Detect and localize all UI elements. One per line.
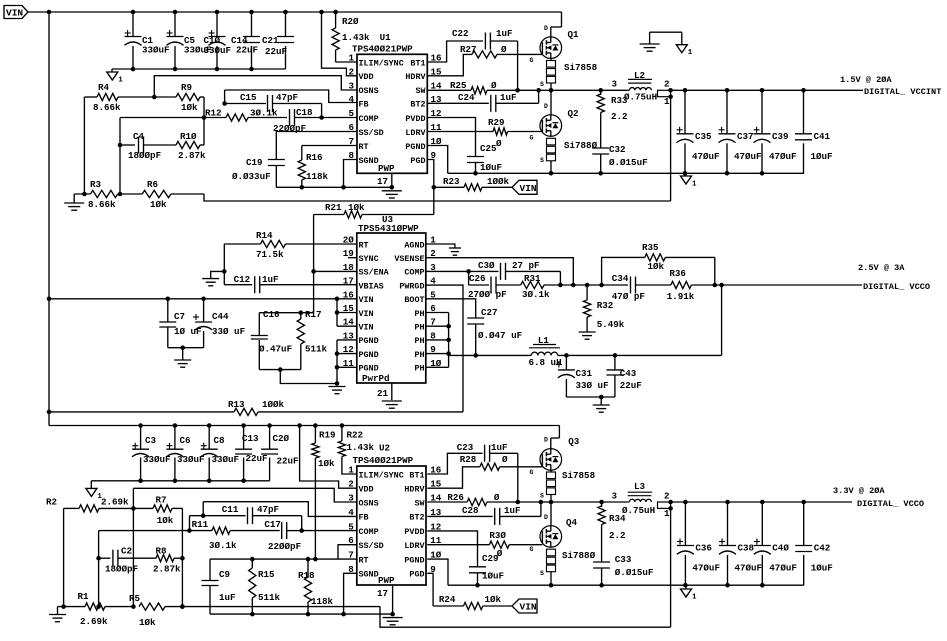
svg-text:1uF: 1uF bbox=[496, 28, 513, 39]
resistor R32 bbox=[584, 285, 625, 332]
capacitor C37 bbox=[719, 90, 762, 174]
svg-text:D: D bbox=[544, 103, 548, 110]
transistor Q1 Si7858 bbox=[530, 12, 598, 90]
wire U3 PGND bracket bbox=[335, 340, 357, 386]
resistor R10 bbox=[176, 131, 206, 161]
svg-text:R23: R23 bbox=[443, 176, 460, 187]
wire FB line U2 bbox=[203, 502, 357, 517]
svg-text:G: G bbox=[530, 546, 534, 553]
capacitor C39 bbox=[754, 90, 797, 174]
svg-text:5: 5 bbox=[348, 521, 354, 532]
svg-text:VSENSE: VSENSE bbox=[394, 254, 424, 264]
svg-text:PH: PH bbox=[414, 323, 424, 333]
capacitor C3 bbox=[132, 426, 170, 481]
svg-text:2: 2 bbox=[348, 479, 354, 490]
wire bottom cap ground rail bbox=[91, 479, 269, 484]
svg-text:C35: C35 bbox=[695, 131, 712, 142]
resistor R8 bbox=[153, 546, 182, 575]
svg-text:Ø.47uF: Ø.47uF bbox=[259, 344, 292, 355]
inductor L2 bbox=[612, 70, 670, 103]
svg-text:R26: R26 bbox=[447, 492, 464, 503]
svg-text:SW: SW bbox=[415, 86, 426, 96]
svg-text:47ØuF: 47ØuF bbox=[734, 151, 762, 162]
svg-text:DIGITAL_ VCCO: DIGITAL_ VCCO bbox=[857, 499, 924, 509]
ground tri1 bottom caps bbox=[86, 481, 103, 501]
svg-text:1.5V @ 2ØA: 1.5V @ 2ØA bbox=[840, 75, 892, 85]
resistor R7 bbox=[133, 495, 182, 527]
capacitor C19 bbox=[232, 132, 357, 188]
svg-text:C16: C16 bbox=[263, 309, 280, 320]
svg-text:R29: R29 bbox=[488, 117, 505, 128]
ground tri1 rail2 bbox=[681, 585, 698, 601]
svg-text:2.87k: 2.87k bbox=[178, 150, 206, 161]
svg-text:2.69k: 2.69k bbox=[101, 497, 129, 508]
wire VIN line to U3 bbox=[47, 297, 337, 302]
svg-text:1.43k: 1.43k bbox=[342, 32, 370, 43]
svg-text:5.49k: 5.49k bbox=[597, 319, 625, 330]
svg-text:47ØuF: 47ØuF bbox=[769, 151, 797, 162]
svg-text:PWRGD: PWRGD bbox=[399, 281, 424, 291]
svg-text:47Ø pF: 47Ø pF bbox=[612, 291, 645, 302]
svg-text:C27: C27 bbox=[481, 307, 498, 318]
svg-text:C33: C33 bbox=[615, 554, 632, 565]
wire divider mid vertical bbox=[131, 508, 136, 608]
svg-text:PH: PH bbox=[414, 364, 424, 374]
wire R6 feedback to L2 tap bbox=[204, 194, 671, 201]
ground C7 C44 bbox=[174, 360, 191, 367]
resistor R30 bbox=[427, 530, 542, 559]
wire PGD to R23 bbox=[427, 160, 436, 215]
wire VSENSE line bbox=[426, 258, 574, 285]
capacitor C8 bbox=[201, 426, 239, 481]
svg-text:DIGITAL_ VCCINT: DIGITAL_ VCCINT bbox=[864, 87, 941, 97]
svg-text:VIN: VIN bbox=[520, 183, 537, 194]
transistor Q4 Si7880 bbox=[530, 502, 596, 585]
svg-text:1Øk: 1Øk bbox=[150, 199, 167, 210]
svg-text:LDRV: LDRV bbox=[405, 128, 426, 138]
capacitor C11 bbox=[190, 504, 302, 531]
svg-text:R9: R9 bbox=[181, 82, 192, 93]
capacitor C23 bbox=[427, 442, 518, 502]
svg-text:TPS4ØØ21PWP: TPS4ØØ21PWP bbox=[353, 455, 414, 466]
svg-text:22uF: 22uF bbox=[265, 46, 287, 57]
svg-text:3Ø.1k: 3Ø.1k bbox=[522, 289, 550, 300]
wire Q3 source lead bbox=[550, 470, 552, 472]
svg-text:VIN: VIN bbox=[520, 602, 537, 613]
svg-text:C11: C11 bbox=[222, 504, 239, 515]
wire PGND to ground rail bbox=[427, 146, 447, 174]
svg-text:R24: R24 bbox=[439, 594, 456, 605]
svg-text:R22: R22 bbox=[347, 430, 364, 441]
wire L1 output node bbox=[558, 285, 722, 358]
svg-text:HDRV: HDRV bbox=[405, 72, 426, 82]
capacitor C33 bbox=[593, 554, 653, 585]
wire C16 R17 bottom rail bbox=[259, 367, 337, 383]
wire COMP line left segment bbox=[120, 115, 206, 194]
capacitor C26 bbox=[468, 271, 507, 300]
resistor R2 bbox=[46, 497, 133, 513]
svg-text:3Ø.1k: 3Ø.1k bbox=[250, 108, 278, 119]
svg-text:22ØØpF: 22ØØpF bbox=[273, 123, 306, 134]
svg-text:PH: PH bbox=[414, 336, 424, 346]
svg-text:C23: C23 bbox=[457, 442, 474, 453]
svg-text:R27: R27 bbox=[460, 44, 477, 55]
svg-text:3: 3 bbox=[612, 491, 618, 502]
svg-text:C29: C29 bbox=[482, 553, 499, 564]
svg-text:3: 3 bbox=[348, 493, 354, 504]
svg-text:33ØuF: 33ØuF bbox=[142, 45, 170, 56]
wire PGND to ground rail U2 bbox=[427, 559, 448, 585]
svg-text:1Øk: 1Øk bbox=[648, 261, 665, 272]
svg-text:C4: C4 bbox=[133, 131, 145, 142]
svg-text:RT: RT bbox=[359, 142, 369, 152]
svg-text:R28: R28 bbox=[460, 454, 477, 465]
svg-text:PWP: PWP bbox=[378, 575, 395, 586]
svg-text:1Øk: 1Øk bbox=[157, 515, 174, 526]
svg-text:SGND: SGND bbox=[359, 570, 379, 580]
capacitor C24 bbox=[427, 90, 538, 112]
capacitor C36 bbox=[677, 502, 720, 586]
svg-text:HDRV: HDRV bbox=[404, 485, 425, 495]
ground tri1 input caps bbox=[107, 69, 124, 85]
wire SYNC stub bbox=[348, 257, 357, 259]
svg-text:R12: R12 bbox=[205, 108, 222, 119]
ground U1 pad bbox=[382, 191, 402, 198]
svg-text:C38: C38 bbox=[738, 543, 755, 554]
svg-text:D: D bbox=[544, 514, 548, 521]
svg-text:R18: R18 bbox=[298, 570, 315, 581]
svg-text:R4: R4 bbox=[98, 82, 110, 93]
svg-text:R1: R1 bbox=[78, 591, 90, 602]
svg-text:BT2: BT2 bbox=[409, 513, 424, 523]
ground R1 left bbox=[49, 607, 66, 622]
resistor R19 bbox=[312, 426, 336, 560]
svg-text:47pF: 47pF bbox=[257, 504, 279, 515]
svg-text:8.66k: 8.66k bbox=[93, 102, 121, 113]
wire R9 to COMP vertical bbox=[203, 97, 205, 145]
capacitor C29 bbox=[427, 531, 504, 585]
svg-text:PwrPd: PwrPd bbox=[362, 373, 390, 384]
wire R5 feedback to L3 tap bbox=[380, 607, 671, 628]
svg-text:PWP: PWP bbox=[378, 163, 395, 174]
svg-text:33ØuF: 33ØuF bbox=[143, 454, 171, 465]
svg-text:Q4: Q4 bbox=[566, 517, 578, 528]
svg-text:18ØØpF: 18ØØpF bbox=[128, 150, 161, 161]
svg-text:R13: R13 bbox=[228, 399, 245, 410]
svg-text:1: 1 bbox=[692, 181, 697, 189]
wire U1 pad17 ground stub bbox=[390, 173, 395, 189]
svg-text:C32: C32 bbox=[609, 144, 626, 155]
svg-text:VDD: VDD bbox=[359, 72, 374, 82]
svg-text:Ø: Ø bbox=[496, 138, 502, 149]
svg-text:118k: 118k bbox=[311, 596, 334, 607]
svg-text:1uF: 1uF bbox=[219, 592, 236, 603]
svg-text:G: G bbox=[530, 469, 534, 476]
svg-text:C37: C37 bbox=[737, 131, 754, 142]
svg-text:22uF: 22uF bbox=[620, 380, 642, 391]
svg-text:17: 17 bbox=[377, 588, 388, 599]
svg-text:R8: R8 bbox=[156, 546, 168, 557]
inductor L1 bbox=[529, 335, 562, 368]
svg-text:COMP: COMP bbox=[359, 114, 379, 124]
ground R32 bbox=[579, 332, 596, 339]
svg-text:C7: C7 bbox=[174, 311, 185, 322]
transistor Q3 Si7858 bbox=[530, 426, 596, 503]
svg-text:4: 4 bbox=[348, 94, 354, 105]
ground tie symbol top bbox=[640, 32, 693, 57]
resistor R34 bbox=[598, 502, 626, 562]
svg-text:Ø: Ø bbox=[491, 80, 497, 91]
svg-text:C2Ø: C2Ø bbox=[273, 433, 290, 444]
svg-text:1: 1 bbox=[348, 53, 354, 64]
svg-text:1: 1 bbox=[348, 465, 354, 476]
resistor R16 bbox=[298, 146, 357, 188]
capacitor C1 bbox=[125, 12, 170, 69]
svg-text:118k: 118k bbox=[306, 171, 329, 182]
svg-text:C13: C13 bbox=[242, 433, 259, 444]
svg-text:R31: R31 bbox=[524, 273, 541, 284]
ground C12 branch bbox=[202, 271, 224, 285]
capacitor C28 bbox=[427, 502, 541, 525]
wire C16 R17 top rail bbox=[259, 310, 313, 315]
svg-text:Si788Ø: Si788Ø bbox=[562, 550, 596, 561]
resistor R31 bbox=[496, 273, 560, 300]
resistor R33 bbox=[597, 90, 604, 148]
svg-text:1.91k: 1.91k bbox=[667, 291, 695, 302]
capacitor C16 bbox=[251, 309, 292, 370]
svg-text:S: S bbox=[540, 570, 544, 577]
resistor R35 bbox=[602, 242, 715, 285]
svg-text:22uF: 22uF bbox=[277, 456, 299, 467]
resistor R15 bbox=[249, 557, 281, 614]
wire U2 pad17 ground stub bbox=[390, 585, 395, 616]
resistor R28 bbox=[427, 454, 542, 488]
capacitor C7 bbox=[159, 299, 201, 348]
resistor R24 bbox=[433, 594, 512, 610]
wire PH line to L1 bbox=[449, 354, 532, 356]
svg-text:22ØØpF: 22ØØpF bbox=[268, 541, 301, 552]
svg-text:511k: 511k bbox=[258, 592, 281, 603]
svg-text:47ØuF: 47ØuF bbox=[769, 563, 797, 574]
capacitor C32 bbox=[592, 144, 647, 173]
svg-text:VBIAS: VBIAS bbox=[359, 281, 384, 291]
ground U2 pad bbox=[383, 618, 403, 625]
svg-text:R14: R14 bbox=[256, 230, 273, 241]
capacitor C18 bbox=[273, 107, 322, 134]
ground U3 PGND bbox=[329, 387, 346, 394]
node C11 FB junction bbox=[201, 513, 206, 518]
svg-text:R6: R6 bbox=[147, 179, 158, 190]
svg-text:1Øk: 1Øk bbox=[485, 594, 502, 605]
svg-text:3: 3 bbox=[612, 79, 618, 90]
transistor Q2 Si7880 bbox=[530, 90, 598, 173]
svg-text:R2: R2 bbox=[46, 497, 57, 508]
wire PGD to R24 bbox=[427, 573, 433, 606]
svg-text:PVDD: PVDD bbox=[405, 114, 425, 124]
svg-text:PGND: PGND bbox=[359, 350, 379, 360]
svg-text:DIGITAL_ VCCO: DIGITAL_ VCCO bbox=[863, 282, 930, 292]
capacitor C43 bbox=[606, 355, 641, 397]
svg-text:S: S bbox=[540, 493, 544, 500]
svg-text:Ø.Ø15uF: Ø.Ø15uF bbox=[609, 157, 648, 168]
svg-text:BOOT: BOOT bbox=[404, 295, 424, 305]
wire C7 C44 ground rail bbox=[168, 345, 204, 360]
svg-text:S: S bbox=[540, 157, 544, 164]
capacitor C10 bbox=[204, 12, 232, 69]
svg-text:17: 17 bbox=[377, 176, 388, 187]
capacitor C30 bbox=[469, 260, 561, 285]
svg-text:1ØuF: 1ØuF bbox=[811, 151, 833, 162]
wire 3.3V output line bbox=[671, 500, 852, 505]
wire R2 left vertical bbox=[63, 508, 65, 606]
capacitor C40 bbox=[754, 502, 797, 586]
node COMP junction U2 bbox=[299, 528, 356, 533]
capacitor C34 bbox=[612, 273, 671, 302]
svg-text:6.8 uH: 6.8 uH bbox=[529, 357, 562, 368]
capacitor C13 bbox=[235, 426, 267, 481]
capacitor C12 bbox=[224, 274, 357, 293]
svg-text:1: 1 bbox=[118, 77, 123, 85]
svg-text:Ø.Ø47 uF: Ø.Ø47 uF bbox=[478, 330, 522, 341]
svg-text:C17: C17 bbox=[264, 519, 281, 530]
svg-text:2: 2 bbox=[664, 491, 670, 502]
resistor R36 bbox=[667, 268, 724, 302]
svg-text:C39: C39 bbox=[772, 131, 789, 142]
capacitor C41 bbox=[795, 90, 833, 174]
wire R7 divider vertical bbox=[180, 508, 185, 608]
svg-text:C31: C31 bbox=[576, 368, 593, 379]
svg-text:1Øk: 1Øk bbox=[348, 202, 365, 213]
svg-text:PGD: PGD bbox=[409, 570, 424, 580]
ground AGND bbox=[449, 248, 461, 255]
svg-text:L3: L3 bbox=[634, 481, 646, 492]
svg-text:SS/SD: SS/SD bbox=[359, 128, 384, 138]
capacitor C35 bbox=[677, 90, 720, 174]
svg-text:33ØuF: 33ØuF bbox=[204, 45, 232, 56]
resistor R5 bbox=[129, 593, 380, 628]
svg-text:SS/SD: SS/SD bbox=[359, 541, 384, 551]
svg-text:Q3: Q3 bbox=[568, 436, 580, 447]
op-amp U1 TPS40021PWP controller bbox=[348, 32, 442, 187]
capacitor C5 bbox=[167, 12, 212, 69]
capacitor C25 bbox=[427, 118, 502, 174]
svg-text:3: 3 bbox=[348, 80, 354, 91]
svg-text:18: 18 bbox=[343, 262, 355, 273]
svg-text:COMP: COMP bbox=[359, 527, 379, 537]
svg-text:VIN: VIN bbox=[359, 295, 374, 305]
svg-text:R11: R11 bbox=[192, 519, 209, 530]
node L2 tap pin1 bbox=[658, 88, 673, 107]
wire SGND rail bbox=[276, 160, 392, 190]
svg-text:C15: C15 bbox=[240, 92, 257, 103]
svg-text:PH: PH bbox=[414, 350, 424, 360]
label 2.5V output bbox=[858, 263, 930, 292]
svg-text:Ø: Ø bbox=[501, 44, 507, 55]
svg-text:S: S bbox=[540, 81, 544, 88]
svg-text:Si788Ø: Si788Ø bbox=[564, 140, 598, 151]
svg-text:1ØuF: 1ØuF bbox=[811, 563, 833, 574]
wire U3 VIN bracket bbox=[335, 297, 357, 327]
capacitor C22 bbox=[427, 28, 517, 90]
capacitor C2 bbox=[99, 546, 156, 575]
node COMP junction U3 bbox=[426, 269, 471, 274]
capacitor C27 bbox=[426, 299, 522, 358]
svg-text:2: 2 bbox=[664, 79, 670, 90]
svg-text:D: D bbox=[544, 25, 548, 32]
svg-text:C28: C28 bbox=[462, 505, 479, 516]
capacitor C21 bbox=[262, 12, 294, 69]
svg-text:C41: C41 bbox=[814, 131, 831, 142]
wire OSNS sense line U2 bbox=[133, 488, 356, 508]
wire R21 vertical to SS/ENA bbox=[311, 215, 316, 313]
resistor R25 bbox=[427, 80, 517, 94]
capacitor C31 bbox=[556, 355, 609, 397]
svg-text:R36: R36 bbox=[669, 268, 686, 279]
svg-text:VIN: VIN bbox=[359, 323, 374, 333]
svg-text:SYNC: SYNC bbox=[359, 254, 379, 264]
svg-text:D: D bbox=[544, 437, 548, 444]
svg-text:C44: C44 bbox=[212, 311, 229, 322]
wire RT rail U2 bbox=[210, 557, 357, 562]
svg-text:1ØØk: 1ØØk bbox=[487, 176, 510, 187]
resistor R12 bbox=[204, 108, 287, 122]
svg-text:C8: C8 bbox=[214, 435, 226, 446]
svg-text:Ø.Ø33uF: Ø.Ø33uF bbox=[232, 171, 271, 182]
svg-text:R3: R3 bbox=[90, 179, 102, 190]
node C15 FB junction bbox=[222, 101, 227, 106]
svg-text:VDD: VDD bbox=[359, 485, 374, 495]
wire SGND rail U2 bbox=[210, 573, 393, 616]
svg-text:21: 21 bbox=[377, 388, 389, 399]
svg-text:1Øk: 1Øk bbox=[139, 617, 156, 628]
resistor R29 bbox=[427, 117, 542, 149]
node L3 tap pin1 bbox=[658, 500, 673, 519]
svg-text:Ø: Ø bbox=[502, 454, 508, 465]
svg-text:TPS4ØØ21PWP: TPS4ØØ21PWP bbox=[352, 44, 413, 55]
wire VDD feed bbox=[322, 12, 358, 76]
svg-text:C25: C25 bbox=[480, 143, 497, 154]
svg-text:RT: RT bbox=[359, 240, 369, 250]
svg-text:33Ø uF: 33Ø uF bbox=[576, 380, 609, 391]
svg-text:2.69k: 2.69k bbox=[80, 616, 108, 627]
capacitor C6 bbox=[166, 426, 204, 481]
resistor R14 bbox=[224, 230, 357, 260]
resistor R17 bbox=[297, 309, 327, 370]
svg-text:L2: L2 bbox=[634, 70, 645, 81]
svg-text:71.5k: 71.5k bbox=[256, 249, 284, 260]
svg-text:47pF: 47pF bbox=[276, 92, 298, 103]
svg-text:U2: U2 bbox=[379, 443, 390, 454]
svg-text:L1: L1 bbox=[538, 335, 550, 346]
wire top VIN rail bbox=[28, 10, 562, 15]
wire L3 tap feedback bbox=[670, 508, 672, 627]
svg-text:PGD: PGD bbox=[410, 156, 425, 166]
resistor R22 bbox=[338, 426, 374, 475]
wire U3 PH bracket bbox=[426, 313, 451, 368]
resistor R20 bbox=[332, 12, 370, 62]
wire OSNS sense line bbox=[154, 76, 357, 97]
op-amp U3 TPS54310PWP regulator bbox=[343, 214, 442, 384]
svg-text:Ø.75uH: Ø.75uH bbox=[622, 505, 655, 516]
resistor R4 bbox=[84, 82, 154, 113]
node VIN flag 1 bbox=[512, 180, 537, 194]
inductor L3 bbox=[612, 481, 670, 516]
svg-text:33ØuF: 33ØuF bbox=[177, 454, 205, 465]
capacitor C42 bbox=[795, 502, 833, 586]
node VIN flag 2 bbox=[512, 599, 537, 613]
svg-text:C3Ø: C3Ø bbox=[478, 260, 495, 271]
svg-text:VIN: VIN bbox=[6, 8, 23, 19]
